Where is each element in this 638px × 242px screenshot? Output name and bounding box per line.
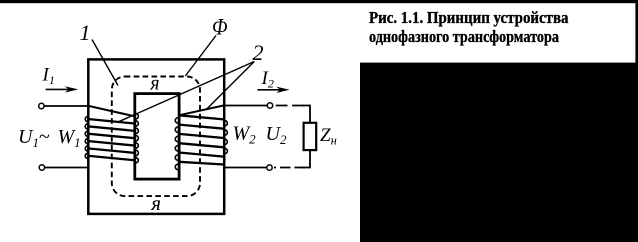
wire below load <box>302 150 310 168</box>
svg-text:однофазного трансформатора: однофазного трансформатора <box>369 27 559 46</box>
svg-text:W1: W1 <box>58 126 81 150</box>
dashed wire to load bottom <box>274 167 305 169</box>
table right border <box>635 0 638 63</box>
flux path dashed loop <box>112 77 200 197</box>
core window <box>135 94 179 180</box>
leader line from Ф to flux path <box>185 36 216 77</box>
svg-text:1: 1 <box>80 20 91 45</box>
svg-text:я: я <box>150 191 161 215</box>
svg-text:I1: I1 <box>42 65 55 88</box>
terminal upper left <box>39 103 44 108</box>
secondary winding W2 <box>175 106 227 170</box>
svg-text:Ф: Ф <box>212 15 228 40</box>
magnetic core outline <box>88 59 224 214</box>
wire lower right <box>224 167 267 169</box>
leader line from 2 to left winding <box>117 62 254 123</box>
load resistor Zн <box>304 123 317 150</box>
svg-text:W2: W2 <box>233 123 257 147</box>
leader line from 2 to right winding <box>207 62 255 110</box>
svg-text:Рис. 1.1. Принцип устройства: Рис. 1.1. Принцип устройства <box>369 8 569 27</box>
terminal lower left <box>39 165 44 170</box>
black image block <box>360 63 638 242</box>
current arrow I1 <box>46 86 78 92</box>
leader line from 1 to core <box>92 40 118 86</box>
wire elbow to load top <box>302 106 310 124</box>
table top border <box>0 0 638 3</box>
wire lower left <box>45 167 89 169</box>
wire upper right <box>224 105 268 107</box>
svg-text:2: 2 <box>253 40 264 65</box>
svg-text:я: я <box>149 72 159 94</box>
svg-text:U2: U2 <box>266 123 287 147</box>
wire upper left <box>44 105 89 107</box>
current arrow I2 <box>257 87 289 93</box>
primary winding W1 <box>85 106 138 163</box>
svg-text:U1~: U1~ <box>18 126 50 150</box>
svg-text:Zн: Zн <box>320 125 337 148</box>
svg-text:I2: I2 <box>261 68 274 91</box>
terminal upper right <box>267 103 272 108</box>
dashed wire to load top <box>276 105 310 107</box>
terminal lower right <box>267 165 272 170</box>
